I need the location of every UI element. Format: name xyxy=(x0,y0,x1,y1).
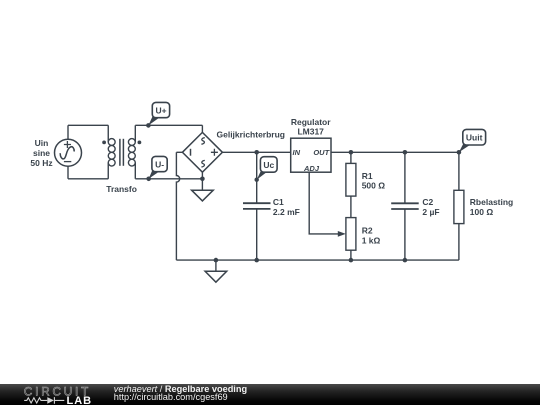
junction C1 top xyxy=(254,150,259,155)
wire bridge bottom stub xyxy=(201,172,203,179)
bridge rectifier (Gelijkrichterbrug) xyxy=(182,132,222,172)
wire bridge top stub xyxy=(201,125,203,132)
svg-text:50 Hz: 50 Hz xyxy=(30,158,52,168)
wire C1 lower xyxy=(256,209,258,260)
svg-text:Uc: Uc xyxy=(263,160,274,170)
svg-text:C2: C2 xyxy=(422,197,433,207)
label C2 2 µF xyxy=(422,197,439,217)
wire OUT rail xyxy=(331,151,459,153)
node U+ flag xyxy=(146,102,170,127)
wire bridge left vertex to drop xyxy=(176,151,182,153)
transformer T1 secondary winding xyxy=(128,125,141,179)
svg-text:IN: IN xyxy=(293,148,301,157)
junction bridge-bottom / U- / ground xyxy=(200,177,205,182)
wire bridge right vertex to regulator IN xyxy=(222,151,290,153)
CircuitLab logo xyxy=(24,385,92,405)
label R2 1 kΩ xyxy=(362,226,381,246)
wire R1 top stub xyxy=(350,152,352,163)
regulator U1 LM317 xyxy=(291,138,331,173)
junction C1 bottom xyxy=(254,258,259,263)
wire R2 bottom stub xyxy=(350,250,352,260)
wire top-left horizontal xyxy=(68,124,108,126)
transformer T1 core xyxy=(120,139,124,166)
label Regulator LM317 xyxy=(291,117,331,137)
wire C2 lower xyxy=(404,209,406,260)
wire left drop with hop over U- wire xyxy=(176,152,179,260)
svg-text:LAB: LAB xyxy=(67,395,93,405)
svg-text:500 Ω: 500 Ω xyxy=(362,181,386,191)
wire Rbelasting bottom stub xyxy=(458,224,460,261)
junction R2 bottom xyxy=(349,258,354,263)
svg-text:sine: sine xyxy=(33,148,50,158)
svg-text:Regulator: Regulator xyxy=(291,117,331,127)
node Uuit flag xyxy=(457,129,486,154)
label Rbelasting 100 Ω xyxy=(470,197,513,217)
label Uin sine 50 Hz xyxy=(30,138,52,168)
capacitor C1 xyxy=(243,203,271,209)
svg-text:LM317: LM317 xyxy=(297,127,324,137)
svg-text:Rbelasting: Rbelasting xyxy=(470,197,513,207)
svg-text:2.2 mF: 2.2 mF xyxy=(273,207,300,217)
svg-text:R2: R2 xyxy=(362,226,373,236)
resistor R2 (potentiometer) xyxy=(346,218,356,251)
ground G2 xyxy=(205,260,227,282)
wire secondary bottom horizontal xyxy=(135,178,202,180)
voltage source Uin (sine, 50 Hz) xyxy=(55,139,82,166)
wire bottom rail xyxy=(176,259,459,261)
svg-text:Gelijkrichterbrug: Gelijkrichterbrug xyxy=(217,130,286,140)
resistor Rbelasting xyxy=(454,190,464,223)
svg-text:ADJ: ADJ xyxy=(303,164,320,173)
svg-text:C1: C1 xyxy=(273,197,284,207)
svg-text:OUT: OUT xyxy=(313,148,330,157)
wire bottom-left horizontal xyxy=(68,178,108,180)
svg-text:Uuit: Uuit xyxy=(466,133,483,143)
wire source bottom stub xyxy=(67,166,69,179)
svg-text:2 µF: 2 µF xyxy=(422,207,439,217)
label R1 500 Ω xyxy=(362,171,386,191)
node U- flag xyxy=(146,156,167,181)
wire C2 upper xyxy=(404,152,406,203)
junction R1 top xyxy=(349,150,354,155)
junction C2 top xyxy=(403,150,408,155)
junction C2 bottom xyxy=(403,258,408,263)
wire secondary top horizontal xyxy=(135,124,202,126)
resistor R1 xyxy=(346,163,356,196)
svg-text:U-: U- xyxy=(155,159,164,169)
svg-text:Uin: Uin xyxy=(35,138,49,148)
wire C1 upper xyxy=(256,152,258,203)
svg-text:100 Ω: 100 Ω xyxy=(470,207,494,217)
wire Rbelasting top stub xyxy=(458,152,460,190)
ground G1 xyxy=(192,179,214,201)
wire source top stub xyxy=(67,125,69,139)
svg-text:1 kΩ: 1 kΩ xyxy=(362,236,381,246)
wire ADJ to R2 wiper with arrowhead xyxy=(309,172,346,237)
label C1 2.2 mF xyxy=(273,197,300,217)
node Uc flag xyxy=(255,157,278,182)
junction ground G2 xyxy=(214,258,219,263)
footer bar xyxy=(0,384,540,405)
svg-text:U+: U+ xyxy=(155,105,166,115)
capacitor C2 xyxy=(391,203,419,209)
svg-text:Transfo: Transfo xyxy=(106,184,137,194)
wire R1-R2 xyxy=(350,196,352,218)
transformer T1 primary winding xyxy=(102,125,115,179)
svg-text:R1: R1 xyxy=(362,171,373,181)
